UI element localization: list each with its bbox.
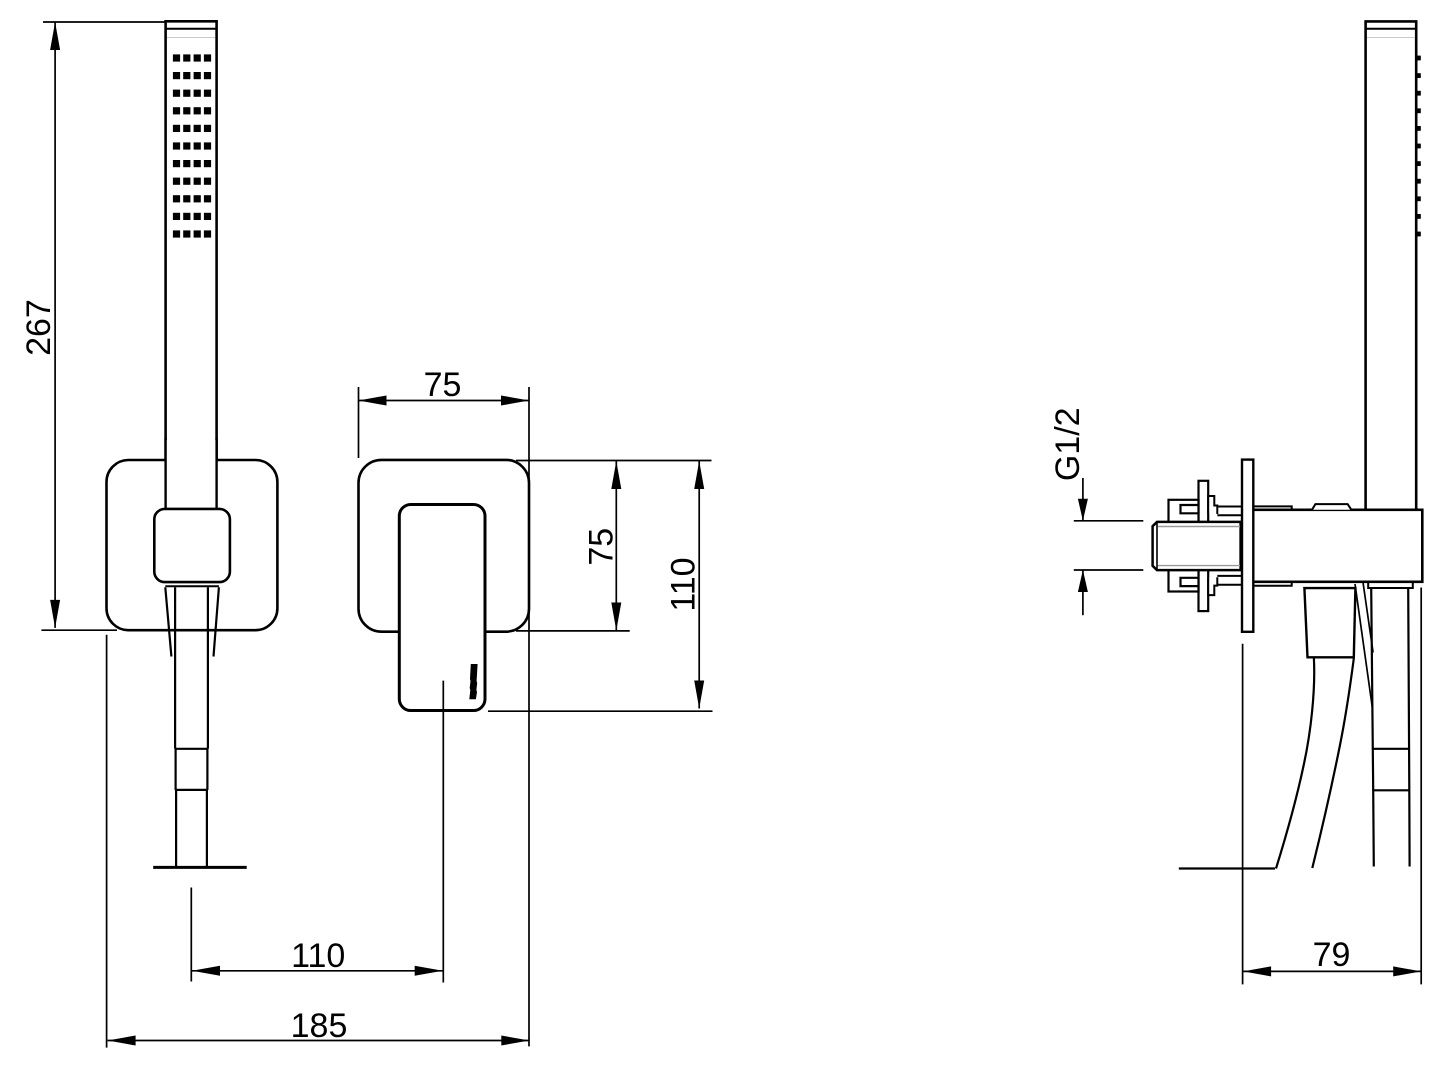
upper flange nut: [1208, 496, 1217, 514]
svg-text:110: 110: [664, 557, 702, 611]
holder bottom seam: [165, 585, 219, 587]
dimension 75 mixer plate height: [516, 461, 712, 631]
collar under arm: [1368, 582, 1413, 588]
hose curves (side): [1276, 659, 1354, 869]
wall escutcheon plate (side): [1242, 460, 1253, 632]
svg-text:110: 110: [291, 937, 345, 975]
upper wall collar: [1217, 507, 1241, 516]
supply pipe stub (side): [1153, 522, 1241, 570]
lower clamp bracket: [1169, 570, 1199, 592]
hand shower wand over plate: [166, 440, 217, 511]
holder arm (side): [1248, 510, 1422, 582]
mounting cross bar: [1199, 481, 1209, 611]
hose connector cone (side): [1304, 588, 1355, 657]
centerline mixer: [442, 681, 444, 983]
dimension 110 mixer height: [488, 461, 713, 711]
svg-text:79: 79: [1313, 936, 1351, 974]
spray nozzle grid (front): [173, 54, 211, 237]
arm top strip: [1250, 506, 1292, 509]
hand shower wand side view: [1366, 21, 1417, 512]
shower handle lower sections (front): [175, 587, 208, 866]
hose end break line (side): [1179, 867, 1275, 869]
lower wall collar: [1217, 576, 1241, 585]
dimension G1/2: [1074, 478, 1144, 615]
svg-text:185: 185: [291, 1007, 348, 1045]
handle cone below holder: [165, 587, 219, 656]
hose loop diagonals: [1355, 584, 1372, 708]
spray nozzles (side): [1416, 56, 1421, 237]
dimension 75 mixer width: [359, 387, 530, 1046]
svg-text:75: 75: [583, 528, 621, 566]
dimension 267 (overall height): [41, 22, 166, 630]
svg-text:75: 75: [424, 366, 462, 404]
arm bottom strip: [1250, 582, 1292, 586]
shower handle lower part (side): [1371, 589, 1409, 867]
arm top tab: [1312, 504, 1351, 510]
svg-text:G1/2: G1/2: [1049, 407, 1087, 481]
handle logo mark: [469, 664, 477, 699]
wall bracket escutcheon plate (front view): [107, 460, 278, 630]
hose end break line (front): [153, 866, 247, 869]
dimension 185: [107, 635, 530, 1048]
dimension 110 spacing: [192, 970, 443, 972]
shower holder block: [154, 509, 230, 582]
hand shower wand front view: [166, 21, 217, 510]
upper clamp bracket: [1169, 500, 1199, 523]
mixer escutcheon plate (front): [359, 460, 530, 632]
dimension 79: [1243, 588, 1422, 985]
centerline shower (front): [190, 888, 192, 982]
lower flange nut: [1208, 577, 1217, 595]
mixer lever handle: [399, 505, 485, 711]
svg-text:267: 267: [20, 299, 58, 356]
